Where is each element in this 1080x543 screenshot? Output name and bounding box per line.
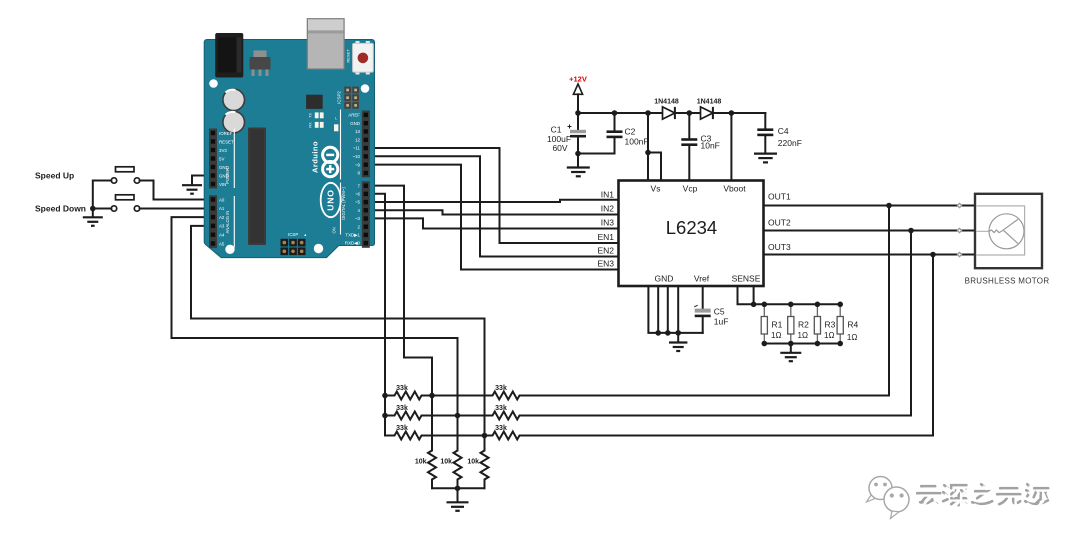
wire OUT3 sense drop: [932, 255, 934, 436]
ground under L6234 GND rail: [677, 333, 679, 342]
svg-text:33k: 33k: [495, 425, 507, 432]
svg-text:EN1: EN1: [597, 232, 614, 242]
wire OUT3: [764, 254, 976, 256]
wire D9 to EN3: [370, 165, 619, 270]
svg-text:RESET: RESET: [346, 49, 351, 63]
wire OUT2 sense drop: [910, 231, 912, 416]
svg-text:10k: 10k: [440, 459, 452, 466]
svg-text:GND: GND: [350, 121, 360, 126]
ground under buttons: [92, 209, 94, 217]
TX RX LEDs: [315, 112, 319, 118]
wire SW2 to A1: [140, 208, 208, 210]
svg-text:~10: ~10: [353, 154, 361, 159]
left header strip analog: [209, 195, 217, 248]
svg-text:Vref: Vref: [694, 274, 710, 284]
svg-text:33k: 33k: [396, 385, 408, 392]
node bus/Vcp junction: [687, 110, 693, 116]
capacitor C4: [757, 113, 802, 153]
voltage regulator: [254, 51, 267, 58]
wire sense resistor bottom rail: [764, 343, 840, 345]
svg-text:Speed Down: Speed Down: [35, 204, 86, 214]
svg-text:R4: R4: [847, 320, 858, 330]
node OUT2 branch: [908, 228, 914, 234]
wire D7 to node1: [370, 186, 432, 396]
node neutral row1: [382, 393, 388, 399]
motor M1 brushless: [965, 194, 1050, 286]
svg-text:3V3: 3V3: [219, 148, 227, 153]
svg-text:~6: ~6: [355, 192, 361, 197]
resistor 10k col3: [481, 448, 489, 482]
UNO oval: [321, 183, 341, 217]
ICSP header bottom: [280, 232, 308, 256]
pushbutton SW1 Speed Up: [111, 167, 139, 183]
node R3 top: [815, 302, 821, 308]
right header pins: [364, 113, 368, 246]
watermark text 云深之无迹 (stylised): [917, 484, 1050, 507]
diode D1 1N4148: [654, 99, 679, 120]
svg-text:1Ω: 1Ω: [771, 331, 781, 340]
svg-text:UNO: UNO: [326, 189, 336, 211]
svg-text:IN1: IN1: [601, 190, 615, 200]
svg-text:A1: A1: [219, 206, 225, 211]
svg-text:IN2: IN2: [601, 204, 615, 214]
wire 10k col2: [457, 416, 459, 489]
capacitor C5 on Vref: [694, 286, 728, 333]
wire SENSE pins: [738, 286, 841, 304]
mounting hole bottom-right: [314, 244, 323, 253]
wire SW1 to A0: [140, 181, 208, 200]
svg-text:12: 12: [355, 137, 360, 142]
node R1 bottom: [762, 341, 768, 347]
ground under 10k network: [457, 488, 459, 501]
left header labels: [219, 131, 234, 247]
node R1 top: [762, 302, 768, 308]
wire row2: [385, 415, 911, 417]
node R2 top: [788, 302, 794, 308]
node R3 bottom: [815, 341, 821, 347]
node sense2 row2: [455, 413, 461, 419]
resistor R2 1ohm: [788, 304, 809, 343]
capacitor C2: [578, 113, 649, 154]
svg-text:R3: R3: [825, 320, 836, 330]
svg-text:OUT2: OUT2: [768, 218, 791, 228]
svg-text:TX: TX: [309, 113, 313, 118]
board PCB body: [204, 40, 374, 258]
svg-text:OUT1: OUT1: [768, 192, 791, 202]
wire OUT1: [764, 205, 976, 207]
node neutral row2: [382, 413, 388, 419]
wire +12V bus: [578, 112, 765, 114]
svg-text:ICSP: ICSP: [288, 232, 298, 237]
svg-text:1N4148: 1N4148: [654, 99, 679, 106]
resistor 33k row3 right: [490, 432, 522, 440]
svg-text:~11: ~11: [353, 146, 361, 151]
wire D5 to IN1: [370, 200, 619, 202]
svg-text:A0: A0: [219, 197, 225, 202]
svg-text:C2: C2: [625, 127, 636, 137]
wire row1: [385, 395, 889, 397]
svg-text:33k: 33k: [396, 405, 408, 412]
L LED: [334, 124, 338, 131]
svg-text:L6234: L6234: [666, 217, 717, 238]
svg-text:EN2: EN2: [597, 246, 614, 256]
svg-text:13: 13: [355, 129, 360, 134]
svg-text:ANALOG IN: ANALOG IN: [225, 211, 230, 234]
watermark wechat bubble big: [884, 487, 909, 519]
node 10k ground rail junction: [455, 486, 461, 492]
node SENSE junction: [751, 302, 757, 308]
svg-text:1uF: 1uF: [714, 317, 729, 327]
USB interface chip: [306, 95, 323, 109]
connector stubs at motor: [957, 203, 961, 256]
svg-text:ON: ON: [331, 227, 336, 233]
Arduino UNO board U2: [204, 19, 374, 258]
svg-text:5V: 5V: [219, 156, 224, 161]
resistor 33k row1 left: [392, 392, 424, 400]
node R4 bottom: [837, 341, 843, 347]
node bus/Vboot junction: [729, 110, 735, 116]
wire D4 to IN2: [370, 210, 619, 214]
wire 10k col1: [431, 396, 433, 489]
resistor 33k row1 right: [490, 392, 522, 400]
wire Vs pin (double): [648, 113, 661, 181]
right header labels: [345, 113, 361, 246]
svg-text:RX: RX: [309, 122, 313, 128]
USB connector: [307, 19, 344, 69]
wire row3: [385, 435, 933, 437]
right header strip bottom: [362, 181, 370, 248]
svg-text:C5: C5: [714, 307, 725, 317]
left header strip power: [209, 129, 217, 189]
wire 10k bottom rail: [432, 487, 485, 489]
svg-text:33k: 33k: [495, 405, 507, 412]
svg-text:GND: GND: [655, 274, 674, 284]
node GND rail junction 2: [665, 330, 671, 336]
svg-text:ICSP2: ICSP2: [337, 91, 342, 104]
svg-text:Vs: Vs: [651, 184, 661, 194]
wire buttons left side: [93, 181, 112, 209]
node C1/C2 junction: [575, 151, 581, 157]
svg-text:AREF: AREF: [348, 113, 360, 118]
svg-text:C1: C1: [551, 125, 562, 135]
svg-text:Speed Up: Speed Up: [35, 171, 74, 181]
svg-text:TXD▶1: TXD▶1: [345, 233, 360, 238]
mounting hole bottom-left: [225, 245, 234, 254]
node OUT1 branch: [886, 203, 892, 209]
node bus/C2 junction: [612, 110, 618, 116]
svg-text:EN3: EN3: [597, 259, 614, 269]
svg-text:Vboot: Vboot: [723, 184, 746, 194]
watermark wechat bubble small: [867, 477, 893, 503]
Arduino infinity logo: [323, 147, 338, 176]
resistor 33k row2 right: [490, 412, 522, 420]
svg-text:A5: A5: [219, 241, 225, 246]
resistor 10k col1: [428, 448, 436, 482]
svg-text:BRUSHLESS MOTOR: BRUSHLESS MOTOR: [965, 277, 1050, 286]
node OUT3 branch: [930, 252, 936, 258]
svg-text:60V: 60V: [552, 143, 567, 153]
op-amp U1 L6234 body: [619, 181, 764, 287]
wire D11 to EN1: [370, 148, 619, 243]
svg-text:R2: R2: [798, 320, 809, 330]
wire D6 to neutral: [370, 194, 385, 436]
capacitor C3: [681, 113, 720, 181]
svg-text:1N4148: 1N4148: [697, 99, 722, 106]
resistor 10k col2: [454, 448, 462, 482]
resistor R4 1ohm: [837, 304, 858, 343]
resistor 33k row3 left: [392, 432, 424, 440]
silkscreen line right digital: [340, 110, 342, 235]
svg-text:RESET: RESET: [219, 139, 234, 144]
resistor 33k row2 left: [392, 412, 424, 420]
svg-text:Vcp: Vcp: [683, 184, 698, 194]
left header pins: [211, 131, 215, 246]
svg-text:C4: C4: [778, 126, 789, 136]
svg-text:1Ω: 1Ω: [847, 333, 857, 342]
svg-text:10k: 10k: [467, 459, 479, 466]
node R4 top: [837, 302, 843, 308]
svg-text:Arduino: Arduino: [311, 141, 320, 173]
svg-text:POWER: POWER: [225, 168, 230, 184]
svg-text:~3: ~3: [355, 216, 361, 221]
+12V supply symbol: [569, 75, 587, 114]
node button common junction: [90, 206, 96, 212]
wire Vboot pin: [730, 113, 732, 181]
svg-text:RXD◀0: RXD◀0: [345, 241, 361, 246]
svg-text:220nF: 220nF: [778, 138, 802, 148]
svg-text:33k: 33k: [495, 385, 507, 392]
wire A3 to node3: [191, 226, 485, 436]
diode D2 1N4148: [697, 99, 722, 120]
wire 10k col3: [484, 436, 486, 489]
ground under sense resistors: [790, 344, 792, 353]
wire OUT1 sense drop: [888, 206, 890, 396]
node GND rail junction 1: [655, 330, 661, 336]
reset button: [356, 41, 360, 45]
node bus/+12V junction: [575, 110, 581, 116]
node GND rail junction 3: [675, 330, 681, 336]
ground at Arduino: [182, 185, 202, 194]
svg-text:OUT3: OUT3: [768, 242, 791, 252]
svg-text:IN3: IN3: [601, 218, 615, 228]
mounting hole right: [361, 84, 370, 93]
wire OUT2: [764, 230, 976, 232]
resistor R1 1ohm: [761, 304, 782, 343]
ground under C1: [567, 168, 590, 177]
capacitor C1: [547, 113, 586, 167]
wire GND pins of L6234: [648, 286, 702, 333]
silkscreen line left: [233, 129, 235, 248]
wire D3 to IN3: [370, 218, 619, 228]
svg-text:R1: R1: [772, 320, 783, 330]
resistor R3 1ohm: [814, 304, 835, 343]
wire D10 to EN2: [370, 156, 619, 256]
barrel jack: [215, 33, 243, 78]
svg-text:1Ω: 1Ω: [824, 331, 834, 340]
electrolytic capacitor bottom: [223, 111, 245, 133]
electrolytic capacitor top: [223, 89, 245, 111]
svg-text:~5: ~5: [355, 200, 361, 205]
svg-text:10nF: 10nF: [701, 141, 720, 151]
right header strip top: [362, 111, 370, 178]
node sense1 row1: [429, 393, 435, 399]
node bus/Vs junction: [645, 110, 651, 116]
wire A2 to node2: [172, 217, 458, 415]
node sense3 row3: [482, 433, 488, 439]
svg-text:DIGITAL (PWM~): DIGITAL (PWM~): [341, 187, 346, 220]
svg-text:L: L: [335, 117, 337, 121]
ATmega328 chip: [248, 128, 266, 246]
svg-text:100nF: 100nF: [625, 137, 649, 147]
svg-text:▲: ▲: [304, 233, 308, 237]
svg-text:~9: ~9: [355, 162, 361, 167]
svg-text:SENSE: SENSE: [732, 274, 761, 284]
pushbutton SW2 Speed Down: [111, 195, 139, 211]
svg-text:1Ω: 1Ω: [798, 331, 808, 340]
node Vs split junction: [645, 150, 651, 156]
ICSP2 header: [337, 87, 360, 109]
wire Arduino GND to ground: [192, 176, 208, 185]
svg-text:33k: 33k: [396, 425, 408, 432]
node R2 bottom: [788, 341, 794, 347]
svg-text:10k: 10k: [415, 459, 427, 466]
mounting hole top-left: [209, 79, 218, 88]
ground under C4: [754, 154, 777, 163]
svg-text:IOREF: IOREF: [219, 131, 233, 136]
